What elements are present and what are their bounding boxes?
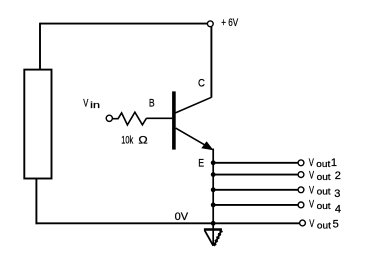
svg-text:out: out: [317, 187, 331, 198]
svg-text:B: B: [149, 98, 155, 110]
svg-text:out: out: [317, 201, 331, 212]
svg-text:3: 3: [334, 188, 340, 200]
svg-text:E: E: [198, 158, 204, 170]
svg-text:V: V: [83, 97, 89, 109]
svg-text:1: 1: [331, 157, 337, 169]
svg-text:out: out: [317, 221, 331, 232]
svg-text:V: V: [309, 157, 315, 169]
svg-text:Ω: Ω: [138, 135, 147, 147]
svg-text:+ 6V: + 6V: [221, 17, 238, 29]
svg-text:C: C: [198, 78, 205, 90]
svg-text:2: 2: [335, 170, 341, 182]
svg-text:V: V: [309, 184, 315, 196]
svg-text:out: out: [316, 159, 330, 170]
svg-text:in: in: [90, 100, 100, 111]
svg-text:V: V: [309, 199, 315, 211]
svg-text:0V: 0V: [175, 211, 189, 223]
svg-text:V: V: [309, 170, 315, 182]
svg-text:V: V: [309, 218, 315, 230]
svg-text:10k: 10k: [121, 135, 133, 147]
svg-text:4: 4: [335, 203, 341, 215]
svg-text:5: 5: [333, 219, 339, 231]
svg-text:out: out: [317, 172, 331, 183]
